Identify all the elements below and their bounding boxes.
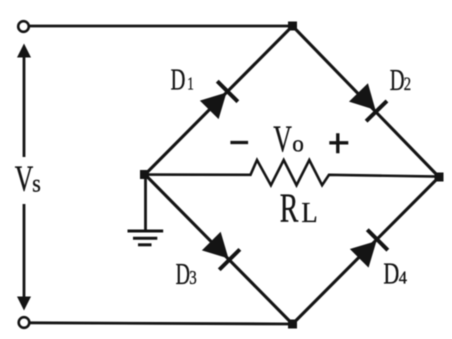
svg-text:s: s bbox=[32, 170, 41, 197]
svg-text:D: D bbox=[390, 63, 405, 97]
svg-text:D: D bbox=[176, 257, 190, 292]
svg-text:V: V bbox=[273, 119, 292, 161]
svg-text:D: D bbox=[383, 256, 399, 291]
svg-text:3: 3 bbox=[189, 266, 197, 289]
svg-text:V: V bbox=[15, 159, 34, 200]
svg-text:1: 1 bbox=[187, 75, 194, 94]
svg-text:L: L bbox=[301, 196, 317, 228]
svg-text:o: o bbox=[292, 131, 304, 158]
svg-text:D: D bbox=[171, 62, 186, 96]
svg-text:2: 2 bbox=[404, 73, 411, 94]
svg-text:4: 4 bbox=[399, 268, 408, 288]
svg-text:R: R bbox=[280, 185, 299, 231]
